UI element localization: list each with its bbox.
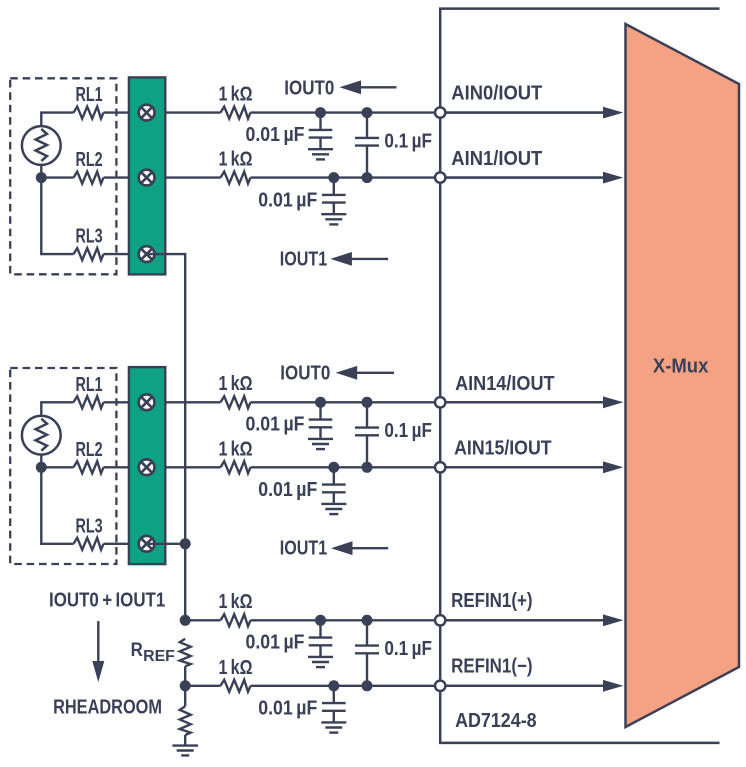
svg-text:0.01 µF: 0.01 µF: [246, 414, 305, 436]
resistor 1 kOhm (1b): [221, 172, 251, 184]
wire arrow REFIN1(−) to X-Mux: [447, 680, 624, 692]
svg-text:0.01 µF: 0.01 µF: [246, 632, 305, 654]
svg-text:AD7124-8: AD7124-8: [455, 710, 536, 732]
resistor 1 kOhm (3b): [221, 680, 251, 692]
capacitor 0.01uF (2a) with ground: [308, 402, 333, 449]
svg-text:R: R: [131, 640, 143, 661]
svg-text:IOUT0: IOUT0: [284, 77, 334, 99]
svg-text:IOUT1: IOUT1: [280, 249, 327, 271]
wire terminal 1.3 elbow to return line: [147, 254, 186, 620]
node cap junction 2a2: [362, 397, 373, 408]
resistor RREF: [180, 639, 191, 667]
wire arrow IOUT1 (2): [331, 541, 388, 555]
svg-text:IOUT0 + IOUT1: IOUT0 + IOUT1: [49, 590, 165, 612]
RTD sensor 1: [22, 126, 61, 165]
capacitor 0.01uF (2b) with ground: [321, 467, 346, 514]
node cap junction 1a2: [362, 107, 373, 118]
wire row AIN2a left: [104, 401, 221, 403]
svg-text:IOUT1: IOUT1: [280, 537, 327, 559]
wire row AIN2a right: [251, 401, 605, 403]
node cap junction 3b1: [328, 680, 339, 691]
wire row AIN1b left: [104, 176, 221, 178]
node cap junction 2b2: [362, 462, 373, 473]
resistor RL1 (2): [74, 396, 104, 408]
terminal 2.3: [139, 536, 155, 552]
resistor RHEADROOM: [180, 706, 191, 735]
wire row AIN2b right: [251, 466, 605, 468]
svg-text:RL1: RL1: [76, 374, 103, 396]
svg-text:RL2: RL2: [76, 149, 103, 171]
capacitor 0.1uF bridge (2): [355, 402, 379, 467]
svg-text:1 kΩ: 1 kΩ: [219, 83, 253, 105]
pin REFIN1(+) node: [435, 615, 445, 625]
wire RL3 row 2 to terminal: [104, 543, 147, 545]
node cap junction 1b2: [362, 172, 373, 183]
capacitor 0.1uF bridge (1): [355, 113, 379, 178]
arrow current direction down: [92, 621, 104, 682]
wire row REFIN1- right: [251, 685, 605, 687]
node REFIN1+ / RREF junction: [180, 615, 191, 626]
RTD sensor 2: [22, 416, 61, 455]
wire RTD1 top lead: [41, 113, 73, 127]
node cap junction 1a1: [315, 107, 326, 118]
capacitor 0.01uF (1b) with ground: [321, 178, 346, 225]
terminal block 1: [129, 77, 165, 274]
terminal 2.2: [139, 459, 155, 475]
svg-text:AIN15/IOUT: AIN15/IOUT: [454, 438, 551, 460]
wire row AIN1b right: [251, 176, 605, 178]
resistor RL2 (1): [74, 172, 104, 184]
dashed RTD cable boundary 2: [10, 368, 116, 564]
resistor RL3 (2): [74, 538, 104, 550]
node RTD1 junction: [36, 172, 47, 183]
node cap junction 3b2: [362, 680, 373, 691]
svg-text:0.1 µF: 0.1 µF: [384, 131, 432, 153]
terminal 1.3: [139, 246, 155, 262]
svg-text:0.1 µF: 0.1 µF: [384, 638, 432, 660]
capacitor 0.01uF (3a) with ground: [308, 620, 333, 667]
node cap junction 3a2: [362, 615, 373, 626]
svg-text:1 kΩ: 1 kΩ: [219, 373, 253, 395]
svg-text:0.01 µF: 0.01 µF: [258, 479, 317, 501]
wire RL3 row 2: [40, 543, 73, 545]
node REFIN1- / RHEADROOM junction: [180, 680, 191, 691]
resistor 1 kOhm (3a): [221, 614, 251, 626]
wire RL3 row 1 to terminal: [104, 253, 147, 255]
node cap junction 1b1: [328, 172, 339, 183]
capacitor 0.01uF (3b) with ground: [321, 686, 346, 733]
svg-text:RL1: RL1: [76, 84, 103, 106]
svg-text:REF: REF: [143, 648, 175, 665]
wire RTD2 RL2 lead: [40, 466, 73, 468]
wire row REFIN1+ left: [185, 619, 220, 621]
wire RTD1 RL3 drop: [40, 178, 42, 255]
svg-text:0.01 µF: 0.01 µF: [258, 189, 317, 211]
terminal block 2: [129, 367, 165, 564]
resistor 1 kOhm (2a): [221, 396, 251, 408]
wire RL3 row 1: [40, 253, 73, 255]
wire RHEADROOM to ground: [184, 735, 186, 746]
wire terminal 2.3 to return line: [147, 543, 186, 545]
svg-text:0.1 µF: 0.1 µF: [384, 420, 432, 442]
svg-text:REFIN1(+): REFIN1(+): [451, 590, 532, 612]
svg-text:1 kΩ: 1 kΩ: [219, 657, 253, 679]
wire row REFIN1+ right: [251, 619, 605, 621]
node cap junction 2b1: [328, 462, 339, 473]
resistor 1 kOhm (2b): [221, 461, 251, 473]
wire arrow AIN14/IOUT to X-Mux: [447, 396, 624, 408]
dashed RTD cable boundary 1: [10, 78, 116, 274]
wire row AIN1a left: [104, 111, 221, 113]
wire RTD2 top lead: [41, 402, 73, 416]
svg-text:1 kΩ: 1 kΩ: [219, 591, 253, 613]
pin AIN0/IOUT node: [435, 107, 445, 117]
terminal 1.2: [139, 170, 155, 186]
wire arrow AIN0/IOUT to X-Mux: [447, 107, 624, 119]
pin AIN14/IOUT node: [435, 397, 445, 407]
wire RTD1 RL2 lead: [40, 176, 73, 178]
terminal 2.1: [139, 394, 155, 410]
svg-text:RHEADROOM: RHEADROOM: [53, 697, 162, 719]
wire arrow REFIN1(+) to X-Mux: [447, 614, 624, 626]
svg-text:AIN1/IOUT: AIN1/IOUT: [451, 148, 542, 170]
svg-text:AIN14/IOUT: AIN14/IOUT: [455, 373, 554, 395]
wire RTD2 bottom lead: [40, 453, 42, 467]
node cap junction 3a1: [315, 615, 326, 626]
capacitor 0.01uF (1a) with ground: [308, 113, 333, 160]
svg-text:RL2: RL2: [76, 439, 103, 461]
wire arrow AIN15/IOUT to X-Mux: [447, 461, 624, 473]
pin AIN1/IOUT node: [435, 172, 445, 182]
multiplexer X-Mux block: [626, 24, 740, 727]
wire arrow IOUT1 (1): [330, 252, 388, 266]
pin AIN15/IOUT node: [435, 462, 445, 472]
pin REFIN1(−) node: [435, 681, 445, 691]
svg-text:RL3: RL3: [76, 226, 103, 248]
node return/terminal2.3 junction: [180, 538, 191, 549]
wire row AIN1a right: [251, 111, 605, 113]
svg-text:REFIN1(−): REFIN1(−): [451, 655, 532, 677]
svg-text:AIN0/IOUT: AIN0/IOUT: [451, 83, 542, 105]
resistor RL3 (1): [74, 248, 104, 260]
wire row REFIN1- left: [185, 685, 220, 687]
svg-text:RL3: RL3: [76, 515, 103, 537]
resistor 1 kOhm (1a): [221, 107, 251, 119]
svg-text:1 kΩ: 1 kΩ: [219, 438, 253, 460]
wire arrow IOUT0 (2): [336, 366, 394, 380]
svg-text:0.01 µF: 0.01 µF: [246, 124, 305, 146]
svg-text:IOUT0: IOUT0: [280, 362, 330, 384]
resistor RL2 (2): [74, 461, 104, 473]
wire RTD1 bottom lead: [40, 164, 42, 178]
svg-text:1 kΩ: 1 kΩ: [219, 149, 253, 171]
svg-text:0.01 µF: 0.01 µF: [258, 698, 317, 720]
wire RHEADROOM top: [184, 686, 186, 707]
wire arrow AIN1/IOUT to X-Mux: [447, 172, 624, 184]
wire arrow IOUT0 (1): [340, 80, 397, 94]
ground (RHEADROOM): [172, 746, 198, 756]
node RTD2 junction: [36, 462, 47, 473]
capacitor 0.1uF bridge (3): [355, 620, 379, 686]
resistor RL1 (1): [74, 107, 104, 119]
node cap junction 2a1: [315, 397, 326, 408]
wire RREF to REFIN1-: [184, 666, 186, 686]
terminal 1.1: [139, 105, 155, 121]
wire row AIN2b left: [104, 466, 221, 468]
wire RTD2 RL3 drop: [40, 467, 42, 544]
chip AD7124-8 outline: [440, 9, 719, 743]
svg-text:X-Mux: X-Mux: [653, 356, 709, 378]
